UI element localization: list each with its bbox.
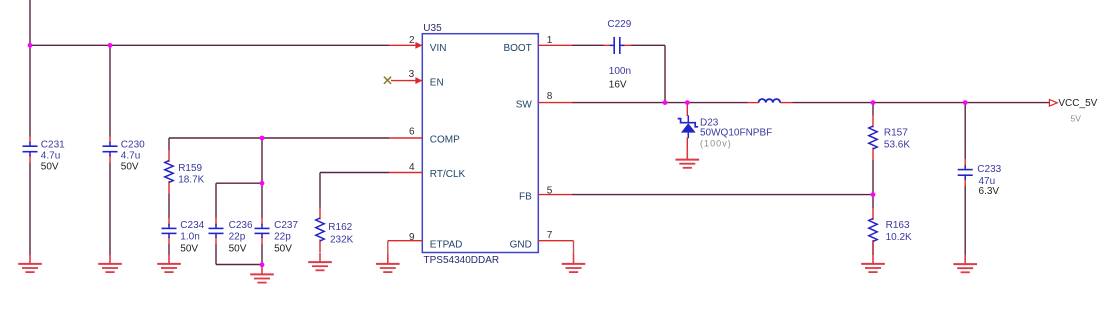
svg-text:18.7K: 18.7K <box>178 175 204 186</box>
node junction BOOT drop on SW <box>663 100 668 105</box>
svg-text:C229: C229 <box>607 19 631 30</box>
wire ETPAD to ground <box>387 241 389 255</box>
R159 labels <box>178 163 204 186</box>
pin 8 SW stub <box>538 102 573 104</box>
wire RT/CLK to R162 <box>319 173 321 208</box>
capacitor C231 <box>23 135 38 163</box>
svg-text:R157: R157 <box>884 128 908 139</box>
wire C229 to corner <box>631 44 666 46</box>
ground C231 <box>18 254 42 272</box>
svg-text:4.7u: 4.7u <box>41 151 60 162</box>
svg-text:TPS54340DDAR: TPS54340DDAR <box>424 255 500 266</box>
C236 labels <box>229 220 253 254</box>
wire C231 branch <box>29 45 31 136</box>
resistor R163 <box>869 208 877 253</box>
svg-text:SW: SW <box>516 99 533 110</box>
svg-text:BOOT: BOOT <box>503 43 531 54</box>
svg-text:R163: R163 <box>886 220 910 231</box>
svg-text:VCC_5V: VCC_5V <box>1058 98 1097 109</box>
wire GND pin drop <box>573 241 575 255</box>
wire FB node to R163 <box>872 195 874 208</box>
wire R157 to FB node <box>872 160 874 195</box>
wire bottom cap bus <box>216 264 262 266</box>
svg-text:50V: 50V <box>180 243 198 254</box>
ground R162 <box>308 253 332 271</box>
op-amp U35 body (TPS54340DDAR regulator) <box>422 34 538 253</box>
svg-text:VIN: VIN <box>430 43 447 54</box>
svg-text:RT/CLK: RT/CLK <box>430 169 466 180</box>
wire C234 to ground <box>168 244 170 255</box>
capacitor C230 <box>103 135 118 163</box>
pin 9 ETPAD stub <box>388 240 423 242</box>
ground comp caps <box>250 265 274 283</box>
wire VIN rail horizontal <box>30 44 389 46</box>
svg-text:2: 2 <box>409 35 415 46</box>
svg-text:10.2K: 10.2K <box>886 232 912 243</box>
capacitor C233 <box>958 159 973 187</box>
svg-text:GND: GND <box>510 239 532 250</box>
capacitor C234 <box>162 217 177 244</box>
svg-text:1.0n: 1.0n <box>180 231 199 242</box>
node junction D23 tap <box>685 100 690 105</box>
svg-text:C230: C230 <box>121 140 145 151</box>
svg-text:EN: EN <box>430 77 444 88</box>
svg-text:7: 7 <box>547 230 553 241</box>
node junction C233 tap <box>963 100 968 105</box>
svg-text:4.7u: 4.7u <box>121 151 140 162</box>
wire R159 to C234 <box>168 194 170 219</box>
pin 1 BOOT stub <box>538 44 571 46</box>
C234 labels <box>180 220 204 254</box>
pin 4 RT/CLK stub <box>389 172 422 174</box>
C230 labels <box>121 140 145 173</box>
wire C236 bottom <box>215 244 217 265</box>
C229 labels <box>607 19 631 90</box>
ground C233 <box>953 255 977 273</box>
wire inductor to VCC port <box>793 102 1050 104</box>
ground GND pin <box>562 254 586 272</box>
svg-text:R159: R159 <box>178 163 202 174</box>
node junction COMP/C237 <box>260 136 265 141</box>
svg-text:C233: C233 <box>977 164 1001 175</box>
wire C233 branch <box>964 103 966 159</box>
svg-text:50V: 50V <box>41 162 59 173</box>
wire C236 tee horizontal <box>216 182 262 184</box>
C233 labels <box>977 164 1001 197</box>
wire input rail vertical <box>29 0 31 45</box>
svg-text:COMP: COMP <box>430 135 460 146</box>
wire C237 branch vertical <box>261 138 263 218</box>
C237 labels <box>274 220 298 254</box>
R162 labels <box>328 222 353 245</box>
ground D23 <box>676 150 700 168</box>
pin 7 GND stub <box>538 240 573 242</box>
pin 5 FB stub <box>538 194 571 196</box>
svg-text:5V: 5V <box>1071 114 1082 124</box>
svg-text:C236: C236 <box>229 220 253 231</box>
svg-text:1: 1 <box>547 35 553 46</box>
svg-text:232K: 232K <box>330 235 354 246</box>
node junction input rail left <box>28 43 33 48</box>
node FB divider junction <box>871 192 876 197</box>
port VCC_5V arrow <box>1049 100 1057 107</box>
capacitor C237 <box>255 217 270 244</box>
svg-text:(100v): (100v) <box>700 138 732 148</box>
wire C236 branch vertical <box>215 183 217 218</box>
node junction R157 tap <box>871 100 876 105</box>
capacitor C229 (horizontal) <box>603 37 631 54</box>
wire R159 top lead <box>168 138 170 151</box>
node junction cap ground bus <box>260 262 265 267</box>
ground ETPAD <box>376 254 400 272</box>
svg-text:50V: 50V <box>229 243 247 254</box>
node junction C236 tee <box>260 181 265 186</box>
svg-text:FB: FB <box>519 191 532 202</box>
wire COMP net horizontal <box>169 137 389 139</box>
ground C230 <box>98 254 122 272</box>
wire BOOT corner drop <box>664 45 666 102</box>
pin 2 VIN stub with arrowhead <box>389 44 422 46</box>
svg-text:9: 9 <box>409 232 415 243</box>
wire C237 bottom <box>261 244 263 265</box>
capacitor C236 <box>209 217 224 244</box>
svg-text:50V: 50V <box>274 243 292 254</box>
pin 3 EN stub with arrowhead <box>391 80 422 82</box>
svg-text:5: 5 <box>547 185 553 196</box>
ground R163 <box>861 254 885 272</box>
svg-text:50V: 50V <box>121 162 139 173</box>
svg-text:53.6K: 53.6K <box>884 140 910 151</box>
pin 6 COMP stub <box>389 137 422 139</box>
svg-text:C234: C234 <box>180 220 204 231</box>
ground C234 <box>157 254 181 272</box>
wire R157 top lead <box>872 103 874 116</box>
wire D23 top lead <box>686 103 688 116</box>
svg-text:U35: U35 <box>423 23 442 34</box>
schottky diode D23 <box>678 115 698 138</box>
svg-text:6: 6 <box>409 127 415 138</box>
wire C230 branch <box>109 45 111 136</box>
wire FB net horizontal <box>572 194 874 196</box>
resistor R159 <box>165 150 173 194</box>
svg-text:16V: 16V <box>609 79 627 90</box>
wire RT/CLK net horizontal <box>320 172 389 174</box>
wire D23 bottom lead <box>686 138 688 151</box>
wire R163 to ground <box>872 242 874 256</box>
wire C233 to ground <box>964 186 966 255</box>
svg-text:22p: 22p <box>274 231 291 242</box>
D23 labels <box>700 118 772 149</box>
wire BOOT to C229 <box>572 44 604 46</box>
C231 labels <box>41 140 65 173</box>
svg-text:22p: 22p <box>229 231 246 242</box>
R163 labels <box>886 220 912 243</box>
svg-text:6.3V: 6.3V <box>979 186 1000 197</box>
svg-text:R162: R162 <box>328 222 352 233</box>
no-connect X on EN pin <box>384 77 391 84</box>
svg-text:8: 8 <box>547 91 553 102</box>
svg-text:50WQ10FNPBF: 50WQ10FNPBF <box>700 127 772 138</box>
node junction C230 tap <box>108 43 113 48</box>
resistor R157 <box>869 115 877 160</box>
svg-text:C237: C237 <box>274 220 298 231</box>
svg-text:3: 3 <box>409 69 415 80</box>
svg-text:ETPAD: ETPAD <box>430 239 463 250</box>
svg-text:100n: 100n <box>609 66 631 77</box>
resistor R162 <box>316 207 324 252</box>
svg-text:4: 4 <box>409 162 415 173</box>
svg-text:C231: C231 <box>41 140 65 151</box>
R157 labels <box>884 128 910 151</box>
wire SW net <box>572 102 748 104</box>
inductor L (SW filter) <box>747 99 793 103</box>
